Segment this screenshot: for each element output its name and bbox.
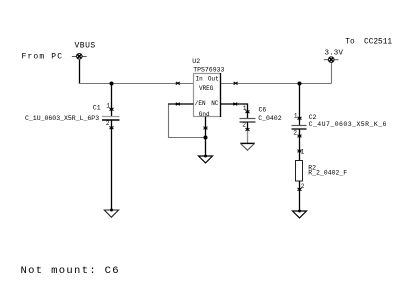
pin tick In [176, 82, 180, 85]
svg-text:2: 2 [106, 120, 110, 127]
wire Out to 3.3V [221, 83, 332, 85]
pin tick R2 pin2 [298, 188, 302, 191]
svg-text:In: In [196, 76, 204, 83]
svg-text:3.3V: 3.3V [325, 50, 344, 58]
wire R2 bottom [299, 181, 301, 211]
pin tick C6 pin1 [246, 110, 250, 113]
svg-text:1: 1 [294, 112, 298, 119]
pin tick NC [233, 103, 237, 106]
ground R2 [293, 210, 307, 218]
junction C2/Out [298, 82, 302, 86]
regulator U2 body [194, 74, 221, 117]
wire C2 top [299, 84, 301, 126]
svg-text:C2: C2 [309, 114, 317, 121]
junction C1/VBUS [110, 82, 114, 86]
capacitor C1 [102, 117, 120, 121]
svg-text:2: 2 [242, 121, 246, 128]
pin tick C1 pin2 [110, 127, 114, 130]
svg-text:C_0402: C_0402 [258, 115, 282, 122]
pin tick Gnd [204, 127, 208, 130]
resistor R2 [296, 161, 303, 182]
ground U2 [199, 155, 213, 163]
wire /EN loop [168, 103, 194, 105]
wire Gnd pin down [205, 117, 207, 157]
svg-text:2: 2 [301, 183, 305, 190]
svg-text:Gnd: Gnd [199, 111, 210, 118]
svg-text:Not mount: C6: Not mount: C6 [21, 265, 120, 277]
svg-text:NC: NC [211, 100, 219, 107]
wire 3.3V riser [331, 63, 333, 84]
svg-text:U2: U2 [192, 58, 200, 65]
svg-text:C6: C6 [259, 107, 267, 114]
wire VBUS down [79, 60, 81, 84]
svg-text:C_1U_0603_X5R_L_6P3: C_1U_0603_X5R_L_6P3 [25, 115, 99, 122]
svg-text:C_4U7_0603_X5R_K_6: C_4U7_0603_X5R_K_6 [309, 121, 387, 128]
svg-text:R_2_0402_F: R_2_0402_F [308, 169, 347, 176]
pin tick Out [234, 82, 238, 85]
port 3.3V [324, 57, 339, 63]
wire VBUS rail to U2 In [79, 83, 194, 85]
svg-text:2: 2 [293, 129, 297, 136]
junction Gnd//EN [204, 136, 208, 140]
svg-text:/EN: /EN [195, 100, 206, 107]
pin tick C2 pin2 [298, 135, 302, 138]
pin tick C2 pin1 [298, 117, 302, 120]
svg-text:From PC: From PC [22, 53, 64, 62]
svg-text:VBUS: VBUS [75, 42, 96, 51]
wire C1 bottom [111, 120, 113, 210]
svg-text:To CC2511: To CC2511 [345, 39, 392, 47]
ground C6 [240, 143, 255, 150]
capacitor C2 [292, 126, 307, 130]
pin tick C6 pin2 [246, 128, 250, 131]
capacitor C6 [240, 119, 256, 123]
wire C1 top [111, 84, 113, 117]
pin tick /EN [176, 103, 180, 106]
port VBUS [72, 54, 87, 60]
svg-text:TPS76933: TPS76933 [193, 66, 224, 73]
svg-text:VREG: VREG [199, 85, 214, 92]
ground C1 [104, 209, 118, 218]
wire C2 to R2 [299, 129, 301, 161]
pin tick C1 pin1 [110, 108, 114, 111]
svg-text:Out: Out [208, 76, 219, 83]
wire NC to C6 [221, 104, 248, 119]
svg-text:C1: C1 [93, 104, 101, 111]
wire C6 bottom [247, 122, 249, 131]
pin tick R2 pin1 [298, 150, 302, 153]
